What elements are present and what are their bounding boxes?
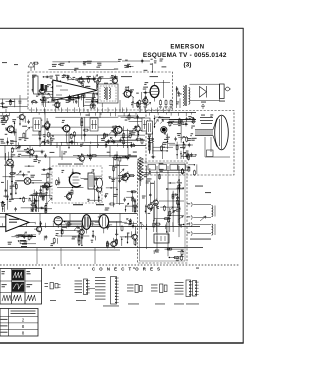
svg-text:ESQUEMA TV - 0055.0142: ESQUEMA TV - 0055.0142 bbox=[143, 52, 227, 59]
svg-text:CONECTORES: CONECTORES bbox=[92, 267, 164, 272]
svg-text:EMERSON: EMERSON bbox=[170, 45, 204, 51]
svg-text:(3): (3) bbox=[184, 61, 192, 68]
